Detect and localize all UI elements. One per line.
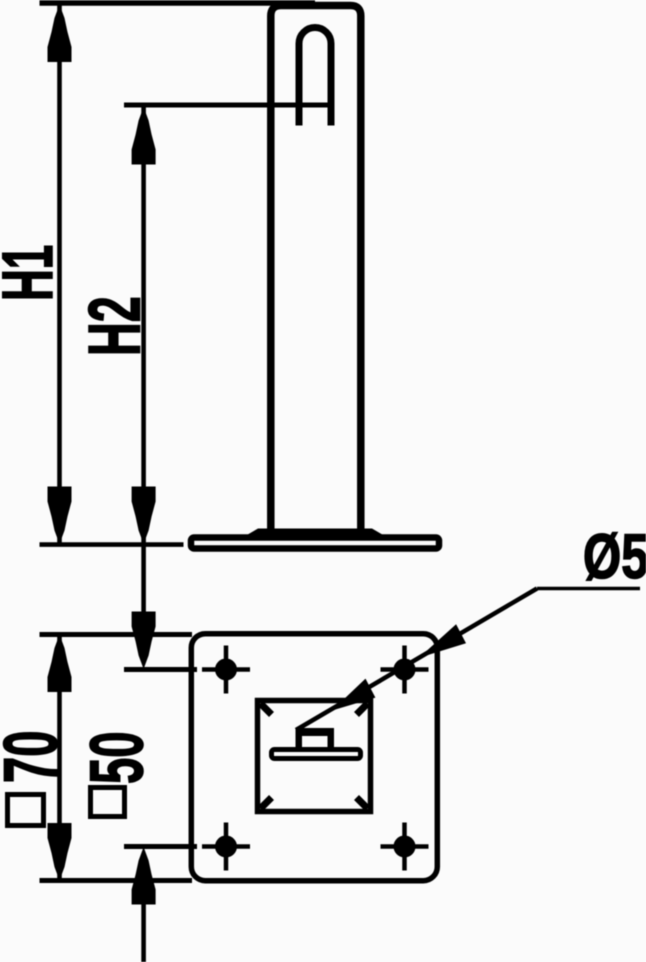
H1 arrow down (48, 487, 72, 545)
base plate side view (191, 538, 439, 549)
hole bottom-right (381, 823, 429, 871)
H1 dimension line (57, 5, 62, 544)
sq70 dimension line (57, 635, 62, 881)
H1 arrow up (48, 5, 72, 63)
hole top-right (381, 646, 429, 694)
svg-text:H1: H1 (0, 245, 68, 301)
sq70 bottom extension line (40, 878, 193, 883)
corner tick TL (261, 704, 272, 715)
sq70 label square (8, 795, 44, 826)
baseline extension line (40, 542, 184, 547)
leader arrow 1 (at hole) (419, 624, 466, 658)
sq50 arrow to bottom (pointing up) (132, 847, 156, 905)
sq70 arrow up (48, 635, 72, 693)
sq50 lower line (141, 903, 146, 962)
svg-text:Ø5: Ø5 (583, 521, 646, 591)
hole bottom-left (202, 823, 250, 871)
sq50 top extension line (124, 667, 197, 672)
plate top view outline (191, 634, 437, 881)
H2 arrow up (132, 107, 156, 165)
corner tick BR (357, 798, 368, 809)
weld flare at post bottom (246, 529, 384, 536)
inner square (post cross-section) (258, 701, 371, 812)
post front view outline (271, 6, 361, 531)
corner tick TR (357, 704, 368, 715)
sq50 bottom extension line (124, 844, 197, 849)
slot bracket top view (staple) (296, 728, 335, 747)
svg-text:70: 70 (0, 731, 74, 783)
sq50 arrow to top (pointing down) (132, 612, 156, 670)
hole top-left (202, 646, 250, 694)
sq70 arrow down (48, 823, 72, 881)
svg-text:50: 50 (75, 731, 159, 784)
top extension line (post top) (40, 0, 316, 6)
H2 dimension line (141, 107, 146, 544)
leader arrow 2 (at bracket) (332, 679, 375, 711)
sq50 upper line (141, 546, 146, 614)
sq50 label square (91, 788, 125, 817)
svg-text:H2: H2 (74, 296, 155, 356)
corner tick BL (261, 798, 272, 809)
leader line (296, 589, 537, 731)
H2 arrow down (132, 487, 156, 545)
leader shoulder (537, 587, 640, 591)
H2 extension line (slot) (124, 103, 334, 108)
post bar top view (272, 750, 361, 759)
slot U-shape in post (299, 28, 331, 126)
sq70 top extension line (40, 632, 193, 637)
